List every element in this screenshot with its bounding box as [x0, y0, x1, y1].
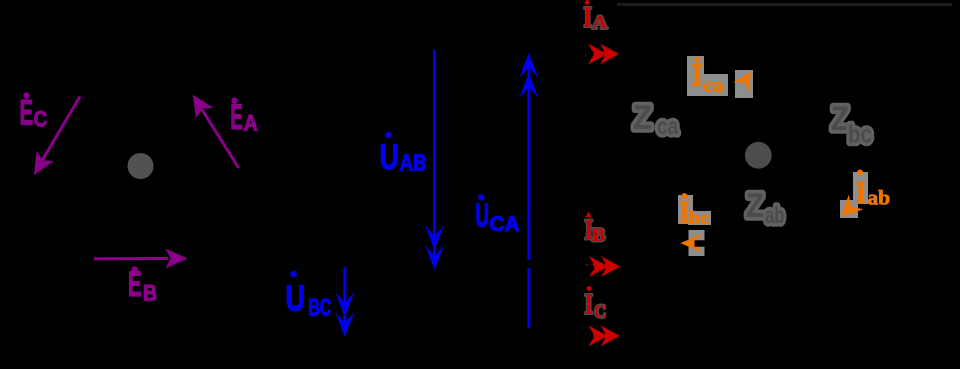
label U_BC: [286, 272, 332, 322]
svg-text:U: U: [380, 138, 399, 177]
svg-text:U: U: [475, 197, 488, 234]
label U_AB: [380, 132, 427, 177]
svg-text:E: E: [230, 98, 242, 137]
line current I_B arrow: [586, 256, 620, 277]
svg-text:B: B: [592, 225, 606, 246]
label U_CA: [475, 195, 519, 236]
svg-text:CA: CA: [490, 213, 520, 236]
svg-text:ab: ab: [867, 185, 890, 209]
impedance label Z_ca: [633, 99, 678, 139]
line voltage U_CA vector: [519, 53, 538, 328]
label I_ca: [692, 57, 725, 97]
phase current I_ca arrow: [733, 67, 758, 92]
impedance label Z_bc: [831, 100, 872, 149]
node dot on U_CA line: [525, 260, 533, 268]
line current I_A arrow: [585, 44, 619, 65]
svg-text:U: U: [286, 278, 306, 319]
svg-text:B: B: [143, 281, 157, 306]
svg-text:I: I: [680, 194, 690, 230]
svg-text:E: E: [20, 93, 34, 132]
svg-text:C: C: [594, 301, 606, 322]
label E_A: [230, 98, 257, 137]
phase current I_ca label halo: [687, 56, 704, 96]
svg-text:C: C: [34, 107, 47, 132]
terminal dot C over I_C arrow: [585, 332, 594, 341]
label I_B: [584, 212, 605, 247]
svg-text:ca: ca: [704, 76, 725, 97]
terminal dot A over I_A arrow: [585, 50, 594, 59]
label I_C: [584, 286, 606, 322]
wire stub over I_ca halo: [748, 60, 755, 69]
phase current I_bc arrow: [680, 234, 701, 252]
svg-text:I: I: [584, 290, 593, 321]
svg-text:E: E: [128, 265, 142, 304]
svg-text:Z: Z: [831, 100, 849, 138]
svg-text:I: I: [692, 57, 704, 93]
svg-text:ab: ab: [765, 202, 785, 228]
svg-text:bc: bc: [689, 208, 710, 229]
line current I_C arrow: [586, 325, 620, 346]
phase current I_ab arrow halo: [840, 200, 858, 218]
line voltage U_AB vector: [425, 50, 444, 270]
svg-text:I: I: [584, 2, 593, 33]
label I_ab: [856, 170, 891, 210]
phase current I_ca arrow halo: [735, 70, 753, 98]
line voltage U_BC vector: [335, 267, 354, 337]
label E_C: [20, 93, 48, 132]
top wire (barely visible dark): [617, 3, 952, 6]
EMF phasor E_C arrow: [25, 97, 80, 181]
svg-text:Z: Z: [633, 99, 652, 137]
EMF phasor E_B arrow: [94, 249, 188, 269]
svg-text:BC: BC: [308, 294, 331, 321]
phase current I_ab arrow: [834, 195, 864, 225]
svg-text:ca: ca: [657, 113, 678, 139]
svg-text:AB: AB: [400, 150, 427, 176]
source symbol circle (left generator): [128, 153, 154, 179]
label I_bc: [680, 193, 710, 229]
source symbol circle (right, inside delta): [745, 142, 772, 169]
impedance label Z_ab: [746, 187, 785, 228]
label E_B: [128, 265, 157, 306]
svg-text:Z: Z: [746, 187, 764, 225]
EMF phasor E_A arrow: [184, 89, 238, 168]
wire stub over I_bc halo: [695, 240, 713, 247]
phase current I_bc label halo: [678, 195, 693, 224]
svg-text:A: A: [244, 110, 258, 135]
terminal dot B over I_B arrow: [586, 264, 595, 273]
phase current I_bc arrow halo: [689, 230, 705, 256]
svg-text:A: A: [592, 12, 607, 33]
svg-text:bc: bc: [848, 121, 872, 149]
phase current I_ab label halo: [853, 172, 868, 204]
label I_A: [584, 0, 608, 33]
